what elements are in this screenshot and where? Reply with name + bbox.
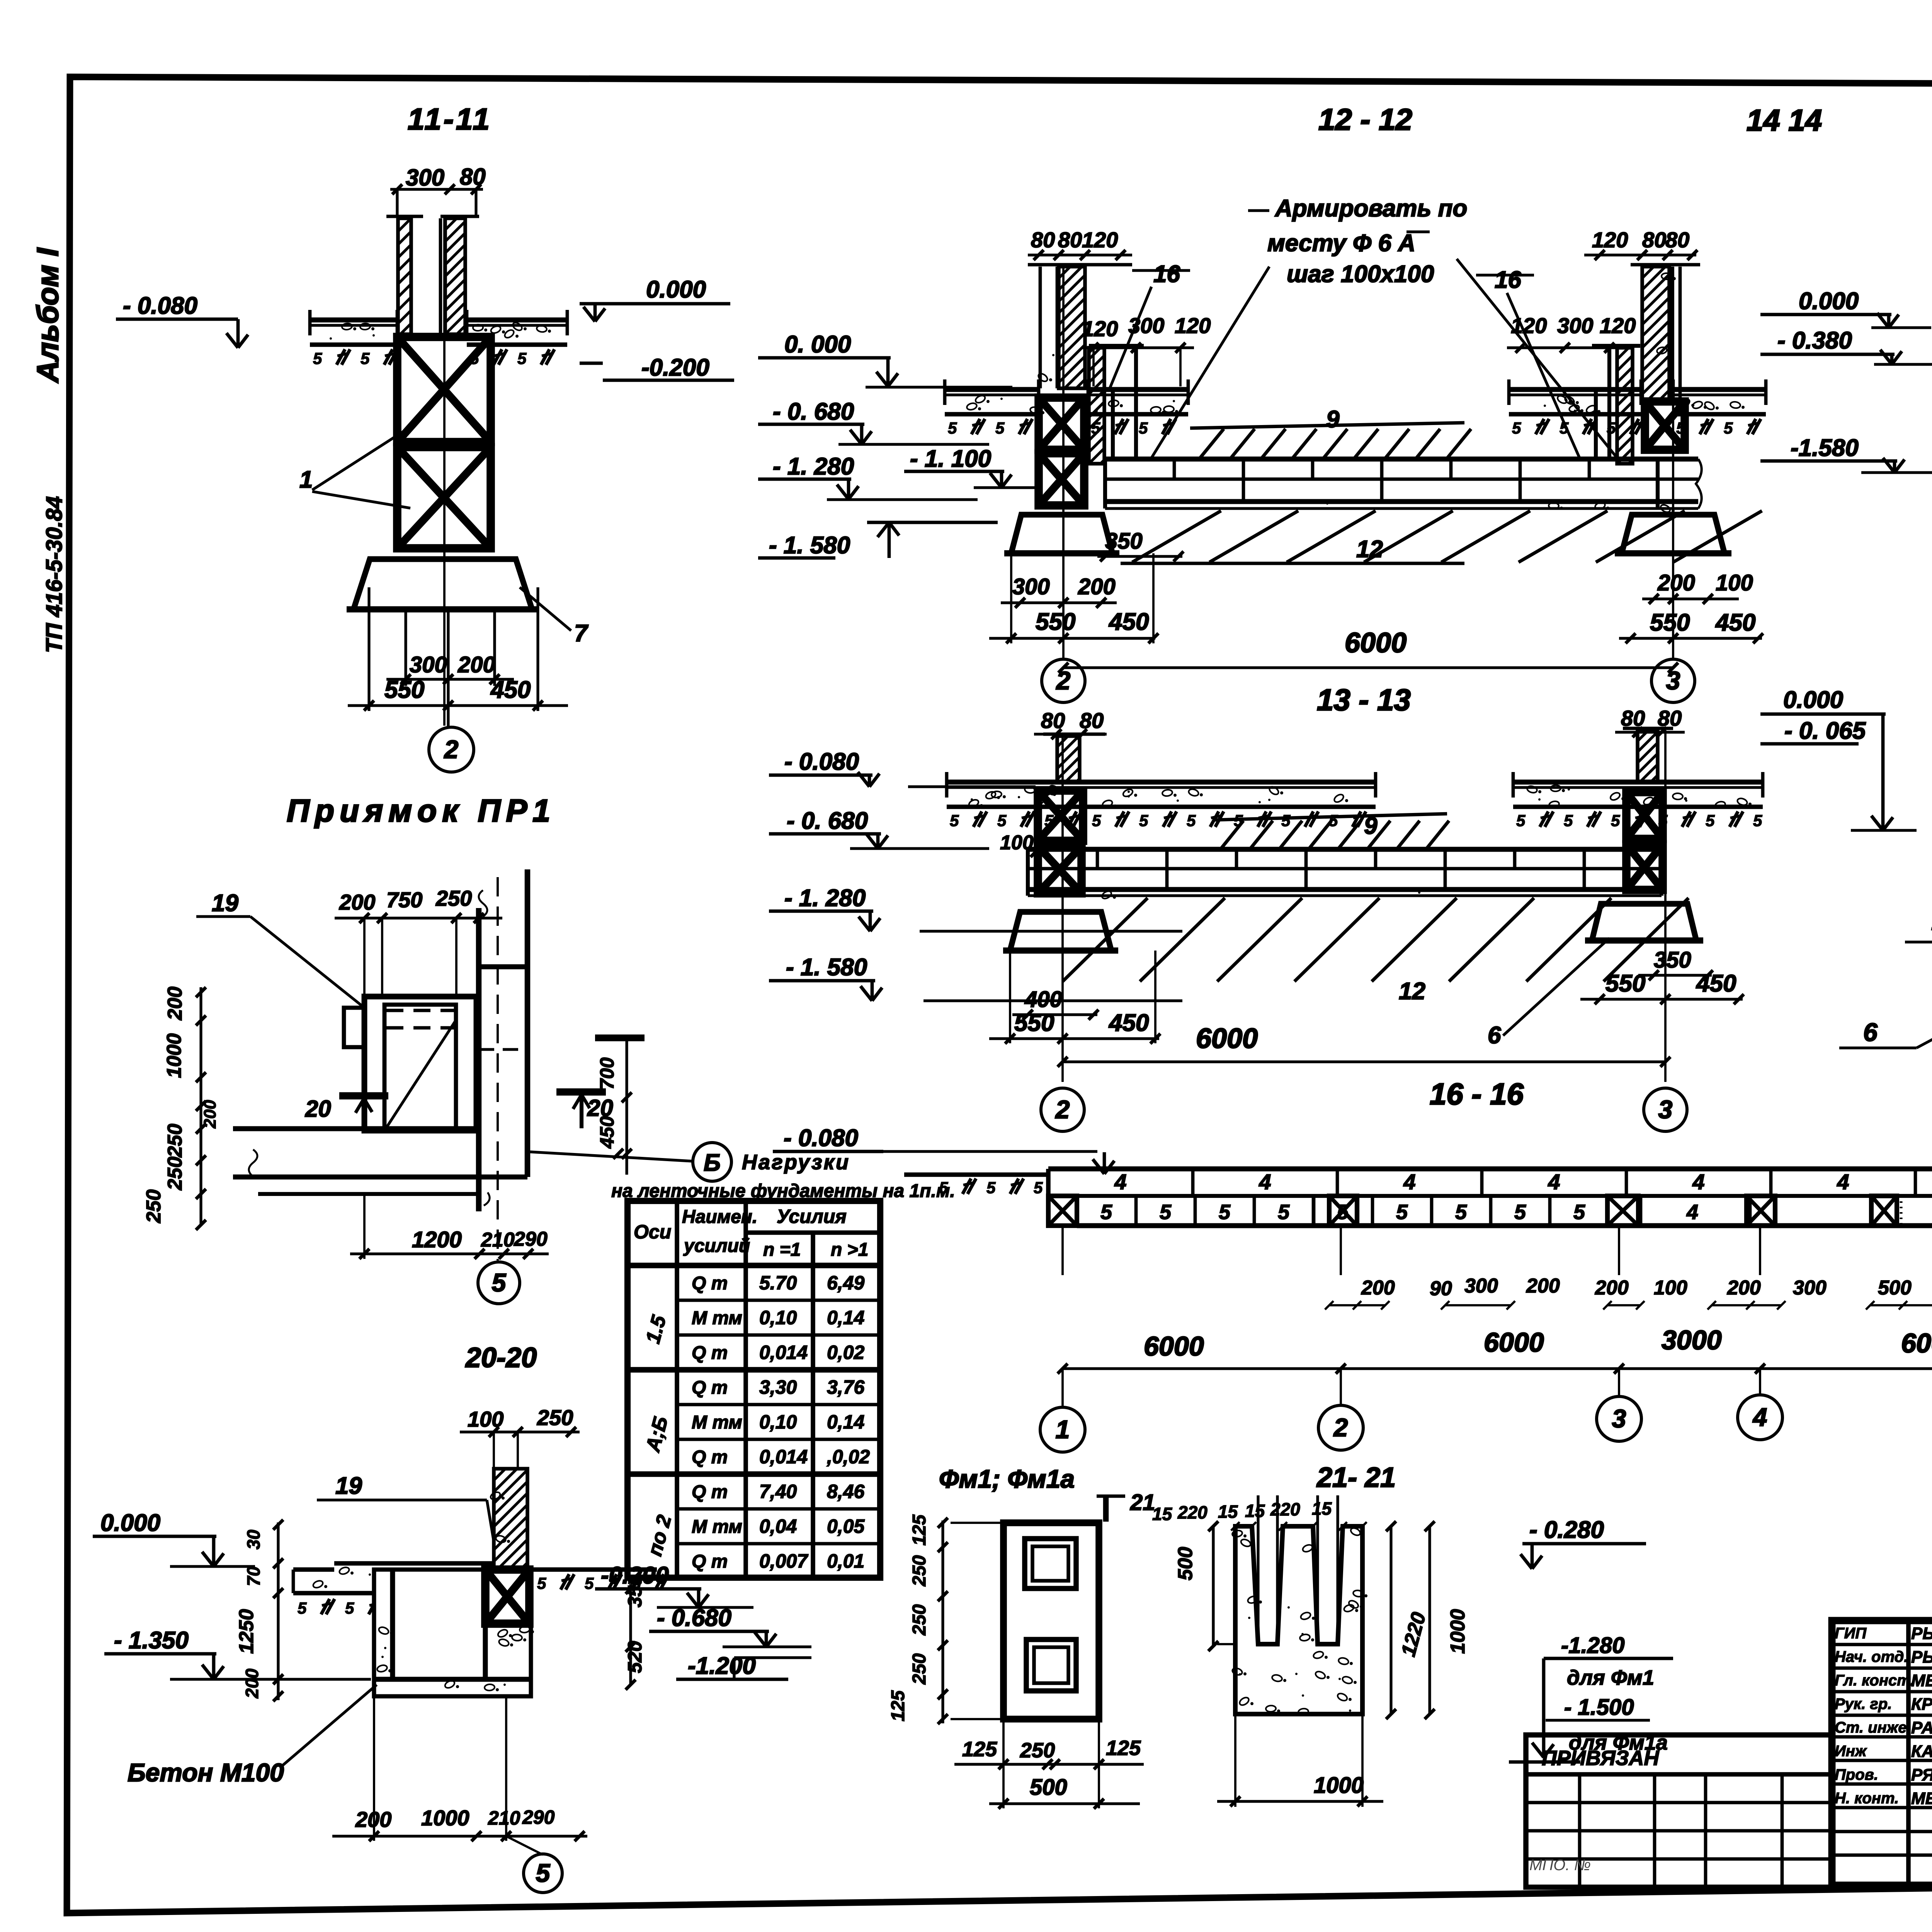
svg-text:1: 1 (1056, 1415, 1070, 1444)
svg-text:250: 250 (537, 1405, 573, 1430)
svg-text:5: 5 (536, 1859, 551, 1887)
svg-text:250: 250 (143, 1189, 165, 1223)
13-13 channel beam (1028, 847, 1662, 852)
svg-text:250: 250 (1020, 1739, 1055, 1762)
13-13 axis lines (1061, 734, 1064, 1082)
svg-text:125: 125 (888, 1690, 908, 1721)
svg-text:0,14: 0,14 (827, 1307, 864, 1328)
svg-text:220: 220 (1177, 1502, 1207, 1522)
svg-text:80: 80 (1658, 706, 1682, 730)
svg-text:4: 4 (1548, 1170, 1560, 1194)
svg-text:450: 450 (1108, 609, 1149, 635)
13-13 grid circle 2 (1041, 1088, 1084, 1131)
u-section block under box (483, 1624, 488, 1679)
svg-text:Пров.: Пров. (1835, 1766, 1878, 1783)
Fm1 block left dims (941, 1520, 944, 1723)
svg-text:2: 2 (1333, 1413, 1348, 1442)
svg-text:250: 250 (909, 1604, 930, 1636)
svg-text:-1.580: -1.580 (1791, 435, 1859, 461)
13-13 grid circle 3 (1644, 1088, 1687, 1131)
plan pit PR1 wall vertical (476, 908, 482, 1211)
svg-text:- 0. 680: - 0. 680 (773, 398, 854, 425)
svg-text:250: 250 (909, 1555, 930, 1587)
svg-text:5: 5 (313, 349, 322, 367)
svg-text:5: 5 (997, 811, 1007, 830)
svg-text:5: 5 (298, 1599, 307, 1617)
svg-text:5: 5 (1724, 419, 1733, 437)
svg-text:6: 6 (1488, 1022, 1501, 1049)
svg-text:125: 125 (962, 1738, 997, 1761)
svg-text:- 1. 280: - 1. 280 (784, 885, 866, 912)
svg-text:- 1.350: - 1.350 (114, 1627, 189, 1654)
svg-text:n =1: n =1 (763, 1240, 801, 1260)
svg-text:300: 300 (1012, 574, 1050, 599)
svg-text:- 0.080: - 0.080 (784, 1125, 858, 1151)
svg-text:250: 250 (164, 1124, 186, 1158)
svg-text:6000: 6000 (1144, 1331, 1204, 1361)
svg-text:7,40: 7,40 (759, 1481, 797, 1502)
13-13 right lower block (1626, 844, 1663, 890)
svg-text:6000: 6000 (1345, 628, 1406, 658)
svg-text:400: 400 (1024, 987, 1062, 1012)
grid circle 2 (429, 727, 474, 772)
svg-text:-0.200: -0.200 (641, 354, 709, 381)
svg-text:5: 5 (492, 1268, 507, 1297)
Fm1a right dims 1220 1000 (1389, 1526, 1392, 1714)
svg-text:1000: 1000 (421, 1806, 469, 1830)
svg-text:0.000: 0.000 (1799, 288, 1859, 315)
u-section slab left (334, 1561, 494, 1566)
u-section grid circle 5 (524, 1854, 562, 1893)
svg-text:0.000: 0.000 (100, 1510, 160, 1536)
svg-text:0,05: 0,05 (827, 1515, 865, 1537)
svg-text:550: 550 (1036, 609, 1075, 635)
svg-text:450: 450 (490, 677, 531, 703)
svg-text:200: 200 (1361, 1277, 1395, 1299)
svg-text:250: 250 (435, 886, 472, 910)
svg-text:14 14: 14 14 (1747, 103, 1822, 137)
section 11-11 wall (398, 218, 411, 334)
svg-text:500: 500 (1878, 1277, 1912, 1299)
plan left dim stack (199, 987, 202, 1225)
grid circle 4 (1738, 1395, 1782, 1440)
svg-text:ТП 416-5-30.84: ТП 416-5-30.84 (42, 496, 67, 653)
svg-text:21- 21: 21- 21 (1316, 1462, 1396, 1493)
svg-text:210: 210 (488, 1807, 520, 1829)
12-12 floor slab mid right (1509, 387, 1641, 392)
svg-text:500: 500 (1030, 1775, 1067, 1800)
svg-text:3000: 3000 (1662, 1325, 1722, 1355)
svg-text:М тм: М тм (692, 1412, 742, 1433)
svg-text:5: 5 (1187, 811, 1196, 830)
svg-text:11-11: 11-11 (408, 102, 492, 136)
12-12 floor slab far right (1673, 387, 1766, 392)
svg-text:- 0. 065: - 0. 065 (1784, 718, 1866, 744)
svg-text:Оси: Оси (634, 1221, 671, 1243)
svg-text:1000: 1000 (1314, 1773, 1364, 1798)
svg-text:200: 200 (339, 890, 375, 914)
svg-text:15: 15 (1152, 1504, 1173, 1524)
svg-text:15: 15 (1245, 1501, 1265, 1521)
svg-text:Рук. гр.: Рук. гр. (1835, 1696, 1892, 1713)
16-16 crossed boxes at grid points (1048, 1196, 1077, 1226)
svg-text:усилий: усилий (683, 1236, 750, 1256)
svg-text:4: 4 (1259, 1170, 1271, 1194)
svg-text:450: 450 (1108, 1010, 1149, 1036)
svg-text:16: 16 (1153, 261, 1180, 287)
plan bottom band (233, 1126, 479, 1131)
svg-text:5: 5 (1611, 811, 1620, 830)
svg-text:450: 450 (596, 1116, 618, 1149)
13-13 left footing (1010, 912, 1111, 951)
svg-text:Q т: Q т (692, 1273, 728, 1294)
svg-text:16: 16 (1495, 267, 1521, 293)
12-12 floor slab mid left (1088, 387, 1188, 392)
svg-text:5: 5 (1278, 1201, 1290, 1224)
svg-text:Нагрузки: Нагрузки (742, 1151, 850, 1174)
axis circle B (693, 1143, 731, 1181)
12-12 channel floor beam (1105, 457, 1698, 462)
svg-text:РЯШЕВСКИЙ: РЯШЕВСКИЙ (1911, 1765, 1932, 1784)
svg-text:0,01: 0,01 (827, 1550, 864, 1572)
svg-text:13 - 13: 13 - 13 (1317, 683, 1411, 717)
svg-text:290: 290 (514, 1228, 548, 1250)
svg-text:80: 80 (1642, 228, 1666, 252)
svg-text:Q т: Q т (692, 1378, 728, 1398)
svg-text:,0,02: ,0,02 (827, 1446, 870, 1468)
svg-text:5: 5 (1139, 419, 1148, 437)
13-13 left column block (1038, 791, 1083, 841)
svg-text:520: 520 (624, 1641, 646, 1673)
svg-text:- 0.380: - 0.380 (1777, 327, 1852, 354)
svg-text:0,02: 0,02 (827, 1342, 865, 1363)
svg-text:5: 5 (939, 1179, 948, 1197)
svg-text:5: 5 (1516, 811, 1526, 830)
12-12 left wall (1059, 267, 1085, 388)
svg-text:Наимен.: Наимен. (682, 1207, 757, 1227)
svg-text:210: 210 (481, 1229, 515, 1251)
svg-text:90: 90 (1430, 1277, 1452, 1300)
Fm1a section body (1235, 1526, 1362, 1714)
svg-text:3: 3 (1612, 1404, 1626, 1433)
svg-text:500: 500 (1174, 1547, 1197, 1580)
12-12 right footing (1622, 515, 1725, 553)
12-12 right wall (1642, 267, 1669, 400)
svg-text:КРЕНЕВА: КРЕНЕВА (1911, 1695, 1932, 1714)
svg-text:Q т: Q т (692, 1551, 728, 1572)
svg-text:6: 6 (1863, 1018, 1878, 1046)
section 11-11 footing (354, 559, 532, 609)
svg-text:5: 5 (1512, 419, 1521, 437)
svg-text:М тм: М тм (692, 1308, 742, 1328)
svg-text:5: 5 (1396, 1201, 1408, 1224)
svg-text:80: 80 (1041, 708, 1065, 733)
svg-text:0,14: 0,14 (827, 1411, 864, 1433)
svg-text:290: 290 (522, 1806, 555, 1828)
svg-text:5: 5 (1706, 811, 1715, 830)
svg-text:300: 300 (410, 652, 447, 677)
svg-text:220: 220 (1270, 1499, 1300, 1519)
svg-text:450: 450 (1715, 609, 1755, 636)
svg-text:ГИП: ГИП (1835, 1625, 1867, 1642)
svg-text:5: 5 (1139, 811, 1148, 830)
svg-text:200: 200 (1595, 1277, 1629, 1299)
svg-text:200: 200 (164, 986, 186, 1020)
svg-text:5: 5 (1160, 1201, 1172, 1224)
section 11-11 column block 2 (397, 447, 491, 548)
svg-text:0.000: 0.000 (1783, 687, 1843, 713)
svg-text:2: 2 (444, 735, 459, 764)
u-section crossed box (485, 1570, 529, 1624)
note leader lines (1151, 267, 1269, 458)
svg-text:16 - 16: 16 - 16 (1430, 1077, 1524, 1111)
svg-text:19: 19 (212, 890, 238, 917)
svg-text:Инж: Инж (1835, 1743, 1867, 1760)
svg-text:5: 5 (1281, 811, 1291, 830)
svg-text:-1.280: -1.280 (1561, 1633, 1624, 1658)
svg-text:300: 300 (406, 165, 444, 190)
svg-text:5: 5 (1092, 811, 1101, 830)
svg-text:12 - 12: 12 - 12 (1318, 102, 1412, 136)
13-13 right footing (1592, 904, 1696, 940)
u-section left dim stack (277, 1522, 279, 1700)
svg-text:5: 5 (361, 349, 370, 367)
loads table Нагрузки (628, 1201, 880, 1578)
svg-text:5: 5 (986, 1179, 996, 1197)
svg-text:6000: 6000 (1901, 1328, 1932, 1358)
svg-text:30: 30 (243, 1529, 264, 1549)
section 11-11 floor slab left (310, 318, 397, 323)
svg-text:Приямок ПР1: Приямок ПР1 (287, 793, 556, 828)
plan pit inner (384, 1005, 456, 1131)
svg-text:РЫБКИНА: РЫБКИНА (1911, 1648, 1932, 1667)
svg-text:2: 2 (1055, 1095, 1070, 1124)
svg-text:200: 200 (201, 1100, 219, 1129)
svg-text:300: 300 (1464, 1275, 1498, 1297)
svg-text:120: 120 (1082, 316, 1118, 341)
svg-text:5: 5 (537, 1574, 546, 1592)
svg-text:80: 80 (1665, 228, 1689, 252)
svg-text:- 1. 580: - 1. 580 (786, 954, 867, 981)
svg-text:4: 4 (1114, 1170, 1126, 1194)
svg-text:1250: 1250 (235, 1609, 258, 1654)
plan pit left notch (344, 1008, 364, 1047)
svg-text:Ст. инже: Ст. инже (1835, 1719, 1906, 1736)
svg-text:20-20: 20-20 (465, 1342, 537, 1373)
svg-text:n >1: n >1 (831, 1240, 868, 1260)
u-section pit walls (374, 1570, 531, 1696)
svg-text:Н. конт.: Н. конт. (1835, 1790, 1899, 1807)
svg-text:15: 15 (1312, 1498, 1332, 1519)
svg-text:ПРИВЯЗАН: ПРИВЯЗАН (1542, 1747, 1659, 1770)
table privyazan (1526, 1735, 1832, 1887)
svg-text:0,007: 0,007 (759, 1550, 808, 1572)
Fm1 block plan (1003, 1523, 1099, 1719)
svg-text:шаг 100х100: шаг 100х100 (1287, 261, 1434, 287)
svg-text:5: 5 (1573, 1201, 1585, 1224)
svg-text:2: 2 (1056, 666, 1071, 695)
svg-text:- 1. 100: - 1. 100 (910, 446, 991, 472)
svg-text:5: 5 (585, 1574, 594, 1592)
13-13 right column block (1626, 792, 1663, 839)
svg-text:Фм1; Фм1а: Фм1; Фм1а (939, 1464, 1075, 1493)
svg-text:100: 100 (1716, 570, 1753, 595)
13-13 right wall (1638, 730, 1658, 782)
12-12 grid circle 3 (1651, 659, 1695, 702)
16-16 bottom row cells 5 (1134, 1196, 1138, 1226)
svg-text:Q т: Q т (692, 1447, 728, 1468)
11-11 bottom dims (404, 609, 407, 686)
svg-text:12: 12 (1399, 978, 1425, 1005)
svg-text:20: 20 (305, 1096, 331, 1122)
grid circle 3 (1597, 1396, 1641, 1441)
svg-text:7: 7 (574, 620, 588, 647)
svg-text:4: 4 (1686, 1201, 1698, 1224)
svg-text:4: 4 (1837, 1170, 1849, 1194)
svg-text:120: 120 (1592, 228, 1628, 252)
svg-text:120: 120 (1175, 313, 1211, 338)
section 11-11 column block 1 (397, 337, 491, 442)
plan pit outer rect (364, 997, 476, 1131)
svg-text:- 1. 280: - 1. 280 (773, 453, 854, 480)
svg-text:4: 4 (1403, 1170, 1415, 1194)
svg-text:250: 250 (164, 1156, 186, 1190)
plan wall rung (479, 964, 527, 969)
svg-text:200: 200 (242, 1668, 262, 1699)
svg-text:5: 5 (1219, 1201, 1231, 1224)
svg-text:80: 80 (1031, 228, 1055, 252)
svg-text:РАШЕВСКИЙ: РАШЕВСКИЙ (1911, 1718, 1932, 1737)
12-12 grid circle 2 (1042, 659, 1085, 702)
svg-text:5: 5 (950, 811, 959, 830)
svg-text:Гл. конст.: Гл. конст. (1835, 1672, 1915, 1689)
svg-text:М тм: М тм (692, 1517, 742, 1537)
svg-text:5: 5 (1514, 1201, 1526, 1224)
svg-text:5: 5 (517, 349, 527, 367)
svg-text:200: 200 (1727, 1277, 1761, 1299)
plan right dims 700 450 (625, 1039, 628, 1175)
svg-text:5: 5 (1564, 811, 1573, 830)
svg-text:15: 15 (1218, 1502, 1238, 1522)
svg-text:700: 700 (596, 1057, 618, 1090)
12-12 left column block 1 (1039, 398, 1084, 450)
16-16 strip body (1048, 1167, 1932, 1172)
svg-text:КАДЫКОВА: КАДЫКОВА (1911, 1742, 1932, 1761)
svg-text:300: 300 (1557, 313, 1593, 338)
svg-text:0,014: 0,014 (759, 1342, 808, 1363)
12-12 floor slab far left (945, 387, 1039, 392)
section cut marks 20 (339, 1092, 388, 1100)
title block main frame (1832, 1621, 1932, 1885)
svg-text:100: 100 (1654, 1277, 1687, 1299)
svg-text:450: 450 (1696, 970, 1736, 997)
svg-text:300: 300 (1128, 313, 1164, 338)
svg-text:МЕЩАНОВ: МЕЩАНОВ (1911, 1789, 1932, 1808)
u-section wall FBS (494, 1469, 527, 1570)
13-13 floor slab (947, 780, 1376, 785)
svg-text:4: 4 (1752, 1403, 1767, 1431)
svg-text:350: 350 (1105, 529, 1143, 554)
svg-text:- 0. 680: - 0. 680 (787, 808, 868, 834)
svg-text:3: 3 (1658, 1095, 1673, 1124)
svg-text:250: 250 (909, 1653, 930, 1685)
svg-text:5: 5 (1560, 419, 1569, 437)
svg-text:0,04: 0,04 (759, 1515, 797, 1537)
12-12 left channel wall (1089, 348, 1104, 464)
svg-text:1000: 1000 (163, 1033, 185, 1078)
u-section ground right (531, 1567, 657, 1572)
svg-text:550: 550 (384, 677, 424, 703)
svg-text:200: 200 (457, 652, 495, 677)
svg-text:Б: Б (704, 1150, 721, 1176)
svg-text:0,10: 0,10 (759, 1307, 797, 1328)
svg-text:125: 125 (1106, 1736, 1141, 1760)
12-12 right column block (1645, 401, 1685, 450)
svg-text:550: 550 (1014, 1010, 1054, 1036)
12-12 left footing (1011, 515, 1112, 553)
svg-text:5: 5 (345, 1599, 354, 1617)
svg-text:9: 9 (1326, 406, 1340, 433)
plan right link to axis B (530, 1152, 692, 1161)
svg-text:5.70: 5.70 (759, 1272, 797, 1294)
svg-text:месту Ф 6 А: месту Ф 6 А (1267, 230, 1415, 257)
svg-text:6000: 6000 (1484, 1327, 1544, 1357)
svg-text:70: 70 (243, 1566, 264, 1586)
12-12 left column block 2 (1039, 453, 1084, 505)
16-16 top row cells (1191, 1169, 1195, 1196)
svg-text:5: 5 (1753, 811, 1762, 830)
13-13 left wall (1057, 736, 1080, 782)
svg-text:Альбом I: Альбом I (31, 248, 65, 383)
svg-text:6000: 6000 (1196, 1023, 1258, 1054)
16-16 bottom row right cells 4 (1639, 1196, 1643, 1226)
svg-text:РЫЖАК: РЫЖАК (1911, 1624, 1932, 1643)
svg-text:- 0.280: - 0.280 (1529, 1517, 1604, 1543)
svg-text:5: 5 (948, 419, 957, 437)
svg-text:5: 5 (1455, 1201, 1467, 1224)
svg-text:3,76: 3,76 (827, 1376, 865, 1398)
svg-text:Усилия: Усилия (777, 1206, 847, 1227)
svg-text:- 1.500: - 1.500 (1564, 1695, 1634, 1720)
svg-text:5: 5 (995, 419, 1005, 437)
svg-text:Армировать по: Армировать по (1274, 195, 1467, 222)
svg-text:0. 000: 0. 000 (784, 331, 851, 358)
svg-text:1: 1 (299, 466, 313, 493)
svg-text:550: 550 (1650, 609, 1690, 636)
svg-text:- 0.680: - 0.680 (657, 1605, 731, 1631)
svg-text:8,46: 8,46 (827, 1481, 865, 1502)
svg-text:Q т: Q т (692, 1482, 728, 1502)
svg-text:200: 200 (1657, 570, 1695, 595)
svg-text:0,014: 0,014 (759, 1446, 808, 1468)
svg-text:0.000: 0.000 (646, 276, 706, 303)
svg-text:1000: 1000 (1447, 1609, 1469, 1654)
svg-text:3,30: 3,30 (759, 1376, 797, 1398)
12-12 axis lines (1062, 267, 1065, 659)
svg-text:3: 3 (1666, 666, 1680, 695)
svg-text:Бетон М100: Бетон М100 (128, 1758, 284, 1787)
svg-text:750: 750 (386, 888, 422, 912)
svg-text:350: 350 (1654, 947, 1691, 973)
svg-text:550: 550 (1605, 970, 1645, 997)
grid circle 1 (1040, 1407, 1085, 1452)
svg-text:0,10: 0,10 (759, 1411, 797, 1433)
svg-text:5: 5 (1034, 1179, 1043, 1197)
grid circle 2 (1318, 1405, 1363, 1450)
svg-text:19: 19 (335, 1473, 362, 1499)
svg-text:120: 120 (1082, 228, 1118, 252)
svg-text:Q т: Q т (692, 1343, 728, 1363)
